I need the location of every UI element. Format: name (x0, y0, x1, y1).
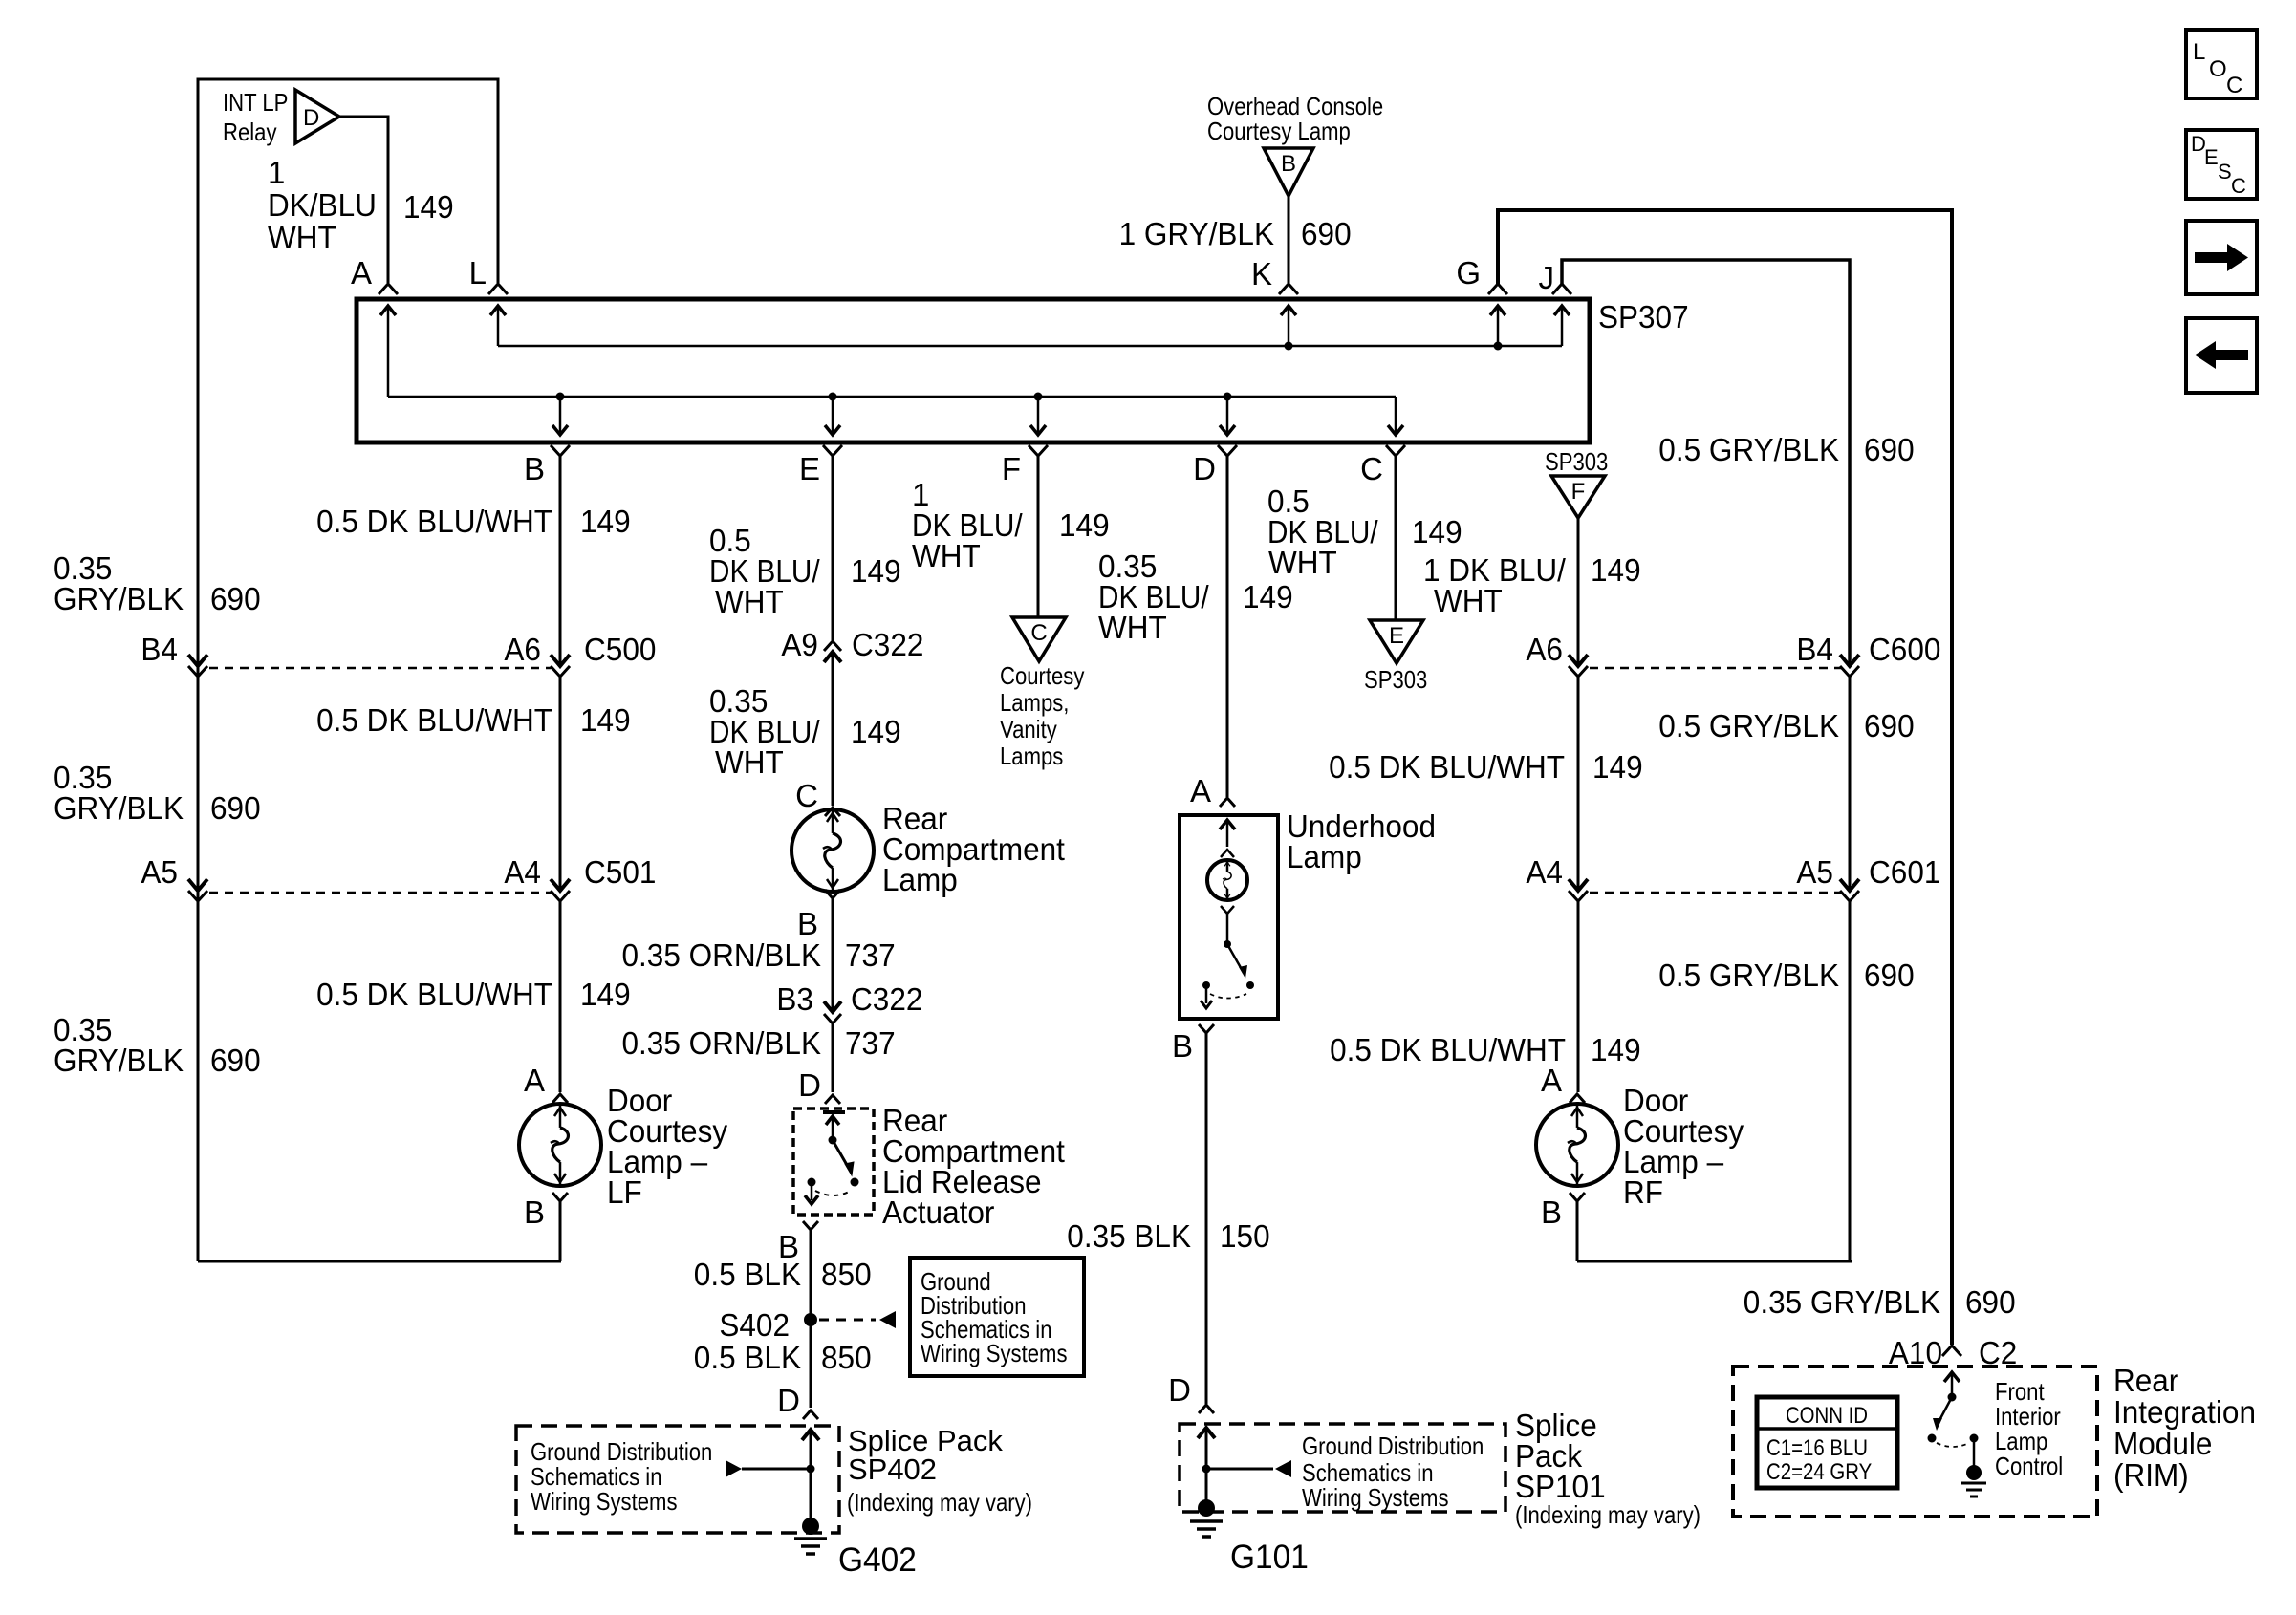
node A4 chevron (C601) (1569, 891, 1588, 901)
label Rear Compartment Lid Release Actuator (882, 1103, 1065, 1230)
connector label A10 C2 (1889, 1335, 2017, 1370)
svg-text:C: C (2226, 73, 2242, 98)
connector label A4 (C601) (1526, 854, 1563, 890)
svg-text:Courtesy Lamp: Courtesy Lamp (1207, 117, 1351, 145)
pin label D (actuator) (798, 1067, 821, 1103)
label Rear Integration Module (RIM) (2113, 1363, 2256, 1493)
SP101 internal branch with arrow (1202, 1460, 1292, 1477)
label 0.35 BLK 150 (1067, 1218, 1269, 1254)
svg-text:B: B (524, 1195, 545, 1230)
svg-text:K: K (1251, 256, 1272, 291)
svg-text:WHT: WHT (1268, 545, 1337, 580)
node A6 chevron below C500 (551, 666, 570, 677)
svg-text:A5: A5 (141, 854, 178, 890)
svg-text:C2=24 GRY: C2=24 GRY (1766, 1459, 1872, 1485)
svg-text:A9: A9 (781, 627, 818, 662)
connector C500 arrow into (551, 655, 570, 666)
wire - right GRY/BLK seg2 (1849, 677, 1852, 891)
svg-text:1: 1 (268, 155, 285, 190)
svg-text:DK/BLU: DK/BLU (268, 187, 377, 223)
svg-text:SP101: SP101 (1515, 1469, 1606, 1504)
ground G402 (794, 1518, 827, 1554)
pin label C (1360, 451, 1383, 486)
svg-text:Wiring Systems: Wiring Systems (531, 1487, 678, 1516)
svg-text:149: 149 (1592, 749, 1643, 785)
node C chevron into rear lamp (825, 807, 840, 816)
svg-text:Courtesy: Courtesy (1000, 661, 1084, 690)
svg-text:C601: C601 (1869, 854, 1940, 890)
svg-text:D: D (798, 1067, 821, 1103)
svg-text:A4: A4 (1526, 854, 1563, 890)
svg-text:(Indexing may vary): (Indexing may vary) (1515, 1500, 1700, 1529)
svg-text:(RIM): (RIM) (2113, 1457, 2189, 1493)
label 1 DK BLU/ WHT 149 (F wire) (912, 477, 1110, 573)
node A chevron into underhood lamp (1220, 798, 1235, 807)
pin label A (underhood lamp) (1190, 773, 1211, 808)
svg-text:A6: A6 (504, 632, 541, 667)
label Underhood Lamp (1287, 808, 1436, 874)
wire - right GRY/BLK seg3 (1849, 901, 1852, 1262)
SP402 internal wire with arrow (802, 1430, 819, 1526)
svg-text:C322: C322 (851, 981, 922, 1017)
wire - E circuit seg2 (0.35 DK BLU/WHT) (832, 652, 834, 806)
svg-text:C1=16 BLU: C1=16 BLU (1766, 1435, 1868, 1461)
connector label A9 C322 (781, 627, 923, 662)
node A5 chevron (C601) (1840, 891, 1859, 901)
wire - RF feed seg1 (1 DK BLU/WHT) (1577, 518, 1580, 666)
svg-text:SP303: SP303 (1364, 665, 1427, 694)
label SP303 above F triangle (1545, 447, 1608, 476)
svg-text:G: G (1456, 255, 1481, 291)
svg-text:D: D (303, 105, 319, 131)
svg-text:149: 149 (1591, 552, 1641, 588)
ground distribution reference box (solid) (910, 1258, 1084, 1376)
wire - C circuit to E triangle (1395, 456, 1397, 620)
label 1 DK/BLU WHT 149 (relay wire circuit) (268, 155, 454, 255)
node E chevron out of SP307 (823, 445, 842, 456)
svg-text:WHT: WHT (715, 584, 784, 619)
svg-text:A5: A5 (1796, 854, 1833, 890)
pin label A (RF lamp) (1541, 1063, 1562, 1098)
CONN ID table (1757, 1397, 1897, 1488)
label 0.5 DK BLU/WHT 149 (B seg1) (316, 504, 631, 539)
label 0.35 ORN/BLK 737 (seg1) (622, 937, 896, 973)
node B chevron below LF lamp (552, 1193, 568, 1201)
svg-text:C322: C322 (852, 627, 923, 662)
legend box DESC (2186, 130, 2257, 199)
connector C501 dashed line (209, 892, 552, 894)
svg-text:E: E (1389, 623, 1404, 649)
svg-text:0.5 GRY/BLK: 0.5 GRY/BLK (1658, 958, 1839, 993)
svg-text:Wiring Systems: Wiring Systems (921, 1339, 1068, 1367)
svg-text:149: 149 (851, 553, 901, 589)
label 0.5 DK BLU/ WHT 149 (E seg1) (709, 523, 901, 619)
off-page triangle F (SP303) (1551, 476, 1605, 518)
pin label D (SP101) (1168, 1372, 1191, 1408)
svg-text:GRY/BLK: GRY/BLK (54, 581, 184, 616)
connector label A5 C601 (1796, 854, 1940, 890)
svg-text:C501: C501 (584, 854, 656, 890)
svg-text:149: 149 (851, 714, 901, 749)
svg-text:Integration: Integration (2113, 1394, 2256, 1430)
svg-text:Rear: Rear (2113, 1363, 2178, 1398)
connector C601 arrow right wire (1840, 879, 1859, 891)
svg-text:C: C (2231, 174, 2246, 198)
svg-text:737: 737 (845, 1025, 896, 1061)
label 0.35 GRY/BLK 690 (RIM feed) (1744, 1284, 2016, 1320)
pin label A (LF lamp) (524, 1063, 545, 1098)
svg-text:A: A (1190, 773, 1211, 808)
connector label A5 (141, 854, 178, 890)
wire - relay D to pin A (339, 117, 388, 283)
INT LP Relay label (223, 88, 288, 146)
connector C600 arrow left wire (1569, 655, 1588, 666)
svg-text:B: B (1541, 1195, 1562, 1230)
svg-text:0.35 ORN/BLK: 0.35 ORN/BLK (622, 937, 822, 973)
pin label B (524, 451, 545, 486)
SP101 internal wire with arrow (1198, 1428, 1215, 1508)
svg-text:B4: B4 (1796, 632, 1833, 667)
svg-text:D: D (1168, 1372, 1191, 1408)
svg-text:850: 850 (821, 1257, 872, 1292)
RIM front interior lamp control switch (1928, 1372, 1987, 1497)
svg-text:0.35 BLK: 0.35 BLK (1067, 1218, 1191, 1254)
wire - G feed path to far right vertical (0.35 GRY/BLK to RIM) (1498, 210, 1952, 1345)
node A chevron into RF lamp (1570, 1094, 1585, 1103)
svg-text:0.5 DK BLU/WHT: 0.5 DK BLU/WHT (1330, 1032, 1566, 1067)
label Door Courtesy Lamp - LF (607, 1083, 728, 1210)
label Splice Pack SP101 (1515, 1408, 1700, 1529)
wire - 0.35 BLK 150 to SP101 (1205, 1033, 1208, 1404)
svg-text:0.5 BLK: 0.5 BLK (694, 1340, 801, 1375)
label 0.35 GRY/BLK 690 (left seg2) (54, 760, 261, 826)
node A4 chevron below C501 (551, 891, 570, 901)
node B chevron out of SP307 (551, 445, 570, 456)
label SP303 below E triangle (1364, 665, 1427, 694)
pin label E (799, 451, 820, 486)
svg-text:149: 149 (1591, 1032, 1641, 1067)
pin label L (469, 255, 487, 291)
label 0.5 DK BLU/WHT 149 (RF seg3) (1330, 1032, 1641, 1067)
svg-text:WHT: WHT (715, 744, 784, 780)
node L chevron into SP307 (488, 284, 508, 294)
node K chevron into SP307 (1279, 284, 1298, 294)
label 0.5 GRY/BLK 690 (right seg1) (1658, 432, 1914, 467)
underhood lamp internal switch (1201, 906, 1254, 1008)
connector label B4 C600 (1796, 632, 1940, 667)
pin label B (RF lamp) (1541, 1195, 1562, 1230)
pin label J (1539, 260, 1555, 295)
svg-text:F: F (1002, 451, 1021, 486)
wire - LF lamp B to ground bus (559, 1201, 562, 1261)
wire - D circuit to underhood lamp (1226, 456, 1229, 797)
svg-text:1 GRY/BLK: 1 GRY/BLK (1119, 216, 1274, 251)
svg-text:INT LP: INT LP (223, 88, 288, 117)
wire - 0.5 BLK 850 to SP402 (810, 1320, 812, 1408)
node J chevron into SP307 (1552, 284, 1571, 294)
wire - 0.5 BLK 850 to S402 (810, 1230, 812, 1318)
svg-text:0.35 GRY/BLK: 0.35 GRY/BLK (1744, 1284, 1940, 1320)
Overhead Console Courtesy Lamp label (1207, 92, 1383, 145)
svg-text:Lamps,: Lamps, (1000, 688, 1069, 717)
connector C322 A9 arrow up on lower wire (824, 652, 841, 662)
pin label D (SP402) (777, 1383, 800, 1418)
svg-text:Ground Distribution: Ground Distribution (1302, 1432, 1484, 1460)
svg-text:150: 150 (1220, 1218, 1270, 1254)
connector C600 dashed line (1590, 667, 1841, 670)
pin label B (rear lamp) (797, 906, 818, 941)
wire - B circuit 149 segment 3 (559, 901, 562, 1092)
connector label A4 C501 (504, 854, 656, 890)
svg-text:C: C (1360, 451, 1383, 486)
svg-text:B: B (1281, 151, 1296, 177)
splice S402 (719, 1307, 896, 1343)
svg-text:WHT: WHT (912, 538, 981, 573)
svg-text:850: 850 (821, 1340, 872, 1375)
connector C501 arrow into (551, 879, 570, 891)
wire - B circuit 149 segment 2 (559, 677, 562, 891)
svg-text:Lamp: Lamp (1287, 839, 1362, 874)
svg-text:Module: Module (2113, 1426, 2212, 1461)
label Rear Compartment Lamp (882, 801, 1065, 897)
wire - bottom return to left branch (198, 1260, 561, 1263)
splice pack SP307 box (357, 299, 1590, 442)
svg-text:J: J (1539, 260, 1555, 295)
svg-text:D: D (1193, 451, 1216, 486)
connector C500 arrow left wire (188, 655, 207, 666)
svg-text:GRY/BLK: GRY/BLK (54, 1043, 184, 1078)
node D chevron out of SP307 (1218, 445, 1237, 456)
node A5 chevron (188, 891, 207, 901)
svg-text:LF: LF (607, 1174, 642, 1210)
svg-text:C500: C500 (584, 632, 656, 667)
underhood lamp internal wire arrow (1220, 820, 1235, 857)
connector C601 arrow left wire (1569, 879, 1588, 891)
svg-text:WHT: WHT (1098, 610, 1167, 645)
label 0.5 DK BLU/WHT 149 (B seg3) (316, 977, 631, 1012)
node B chevron below rear lamp (825, 890, 840, 898)
svg-text:690: 690 (1864, 432, 1915, 467)
underhood lamp bulb (1207, 860, 1247, 900)
connector label A6 (C600) (1526, 632, 1563, 667)
wire - B circuit 149 segment 1 (559, 456, 562, 666)
pin label G (1456, 255, 1481, 291)
svg-text:690: 690 (1301, 216, 1352, 251)
svg-text:A6: A6 (1526, 632, 1563, 667)
svg-text:0.5 GRY/BLK: 0.5 GRY/BLK (1658, 432, 1839, 467)
svg-text:690: 690 (1965, 1284, 2016, 1320)
pin label K (1251, 256, 1272, 291)
svg-text:C: C (1030, 620, 1047, 646)
node B chevron below underhood lamp (1199, 1024, 1214, 1033)
svg-text:690: 690 (210, 1043, 261, 1078)
SP307 inner bus from L to J (490, 306, 1570, 351)
pin label F (1002, 451, 1021, 486)
label 0.35 DK BLU/ WHT 149 (D wire) (1098, 549, 1293, 645)
svg-text:Actuator: Actuator (882, 1195, 994, 1230)
svg-text:A: A (1541, 1063, 1562, 1098)
pin label B (actuator) (778, 1229, 799, 1264)
label G101 (1230, 1539, 1309, 1576)
splice pack SP402 box (dashed) (516, 1426, 839, 1533)
pin label D (1193, 451, 1216, 486)
svg-text:0.5 DK BLU/WHT: 0.5 DK BLU/WHT (316, 977, 552, 1012)
label 0.35 DK BLU/ WHT 149 (E seg2) (709, 683, 901, 780)
rear integration module RIM box (dashed) (1733, 1367, 2097, 1517)
legend box left arrow (2186, 318, 2257, 393)
svg-text:149: 149 (580, 702, 631, 738)
node B chevron below RF lamp (1570, 1193, 1585, 1201)
svg-text:A4: A4 (504, 854, 541, 890)
label 1 GRY/BLK 690 (1119, 216, 1352, 251)
label Courtesy Lamps Vanity Lamps (1000, 661, 1084, 770)
svg-text:690: 690 (1864, 958, 1915, 993)
svg-text:E: E (2204, 145, 2219, 169)
node A chevron into LF lamp (552, 1094, 568, 1103)
svg-text:A: A (351, 255, 372, 291)
svg-text:E: E (799, 451, 820, 486)
svg-text:0.5 DK BLU/WHT: 0.5 DK BLU/WHT (1329, 749, 1565, 785)
svg-text:SP303: SP303 (1545, 447, 1608, 476)
connector label A6 C500 (504, 632, 656, 667)
label SP307 (1598, 299, 1689, 334)
rear compartment lid release actuator box (dashed) (793, 1109, 874, 1215)
svg-text:CONN ID: CONN ID (1786, 1403, 1868, 1429)
label 0.35 GRY/BLK 690 (left seg1) (54, 550, 261, 616)
label 0.5 DK BLU/WHT 149 (B seg2) (316, 702, 631, 738)
svg-text:B: B (797, 906, 818, 941)
svg-text:737: 737 (845, 937, 896, 973)
svg-text:O: O (2209, 56, 2227, 82)
legend box right arrow (2186, 221, 2257, 294)
svg-text:L: L (469, 255, 487, 291)
node D chevron into SP402 (803, 1410, 818, 1419)
svg-text:(Indexing may vary): (Indexing may vary) (847, 1488, 1032, 1517)
svg-text:S: S (2218, 160, 2232, 183)
svg-text:149: 149 (1412, 514, 1462, 549)
SP307 inner bus from A to B E F D C (380, 306, 1403, 435)
node G chevron into SP307 (1488, 284, 1507, 294)
svg-text:0.5 DK BLU/WHT: 0.5 DK BLU/WHT (316, 504, 552, 539)
svg-text:0.5 BLK: 0.5 BLK (694, 1257, 801, 1292)
SP402 internal ground distribution text (531, 1437, 712, 1516)
connector label B3 C322 (776, 981, 922, 1017)
svg-text:149: 149 (403, 189, 454, 225)
label 0.35 GRY/BLK 690 (left seg3) (54, 1012, 261, 1078)
svg-text:SP307: SP307 (1598, 299, 1689, 334)
node B4 chevron (188, 666, 207, 677)
connector C501 arrow left wire (188, 879, 207, 891)
svg-text:690: 690 (210, 581, 261, 616)
svg-text:D: D (777, 1383, 800, 1418)
svg-text:Lamps: Lamps (1000, 742, 1063, 770)
relay output triangle D (295, 90, 339, 143)
label 0.5 BLK 850 (below S402) (694, 1340, 872, 1375)
svg-text:0.35 ORN/BLK: 0.35 ORN/BLK (622, 1025, 822, 1061)
connector C322 A9 chevron (824, 641, 841, 651)
svg-text:WHT: WHT (268, 220, 336, 255)
svg-text:B: B (1172, 1028, 1193, 1064)
off-page triangle C (courtesy lamps) (1012, 617, 1066, 661)
svg-text:Vanity: Vanity (1000, 715, 1057, 743)
svg-text:L: L (2193, 39, 2205, 65)
svg-text:149: 149 (1059, 507, 1110, 543)
node C2 chevron into RIM (1942, 1346, 1961, 1356)
svg-text:Lamp: Lamp (882, 862, 958, 897)
pin label C (rear compartment lamp) (795, 778, 818, 813)
svg-text:SP402: SP402 (848, 1453, 937, 1486)
legend box LOC (2186, 30, 2257, 98)
svg-text:A: A (524, 1063, 545, 1098)
node A6 chevron (C600) (1569, 666, 1588, 677)
svg-text:0.5 GRY/BLK: 0.5 GRY/BLK (1658, 708, 1839, 743)
label 0.5 GRY/BLK 690 (right seg2) (1658, 708, 1914, 743)
wire - E circuit seg1 (832, 456, 834, 640)
wire - RF feed seg2 (1577, 677, 1580, 891)
label G402 (838, 1541, 917, 1579)
wire - RF lamp B return (1576, 1201, 1579, 1261)
wire - RF bottom return to GRY/BLK wire (1577, 1260, 1852, 1263)
splice pack SP101 box (dashed) (1180, 1424, 1505, 1512)
svg-text:G101: G101 (1230, 1539, 1309, 1576)
svg-text:690: 690 (1864, 708, 1915, 743)
node B chevron below actuator (803, 1221, 818, 1230)
svg-text:B4: B4 (141, 632, 178, 667)
connector C601 dashed line (1590, 892, 1841, 894)
wire - RF feed seg3 (1577, 901, 1580, 1092)
wire - ORN/BLK 737 seg1 (832, 898, 834, 1013)
label 0.5 DK BLU/WHT 149 (RF seg2) (1329, 749, 1643, 785)
label 0.5 GRY/BLK 690 (right seg3) (1658, 958, 1914, 993)
connector C500 dashed line (209, 667, 552, 670)
actuator internal contact and switch (805, 1112, 859, 1204)
svg-text:RF: RF (1623, 1174, 1663, 1210)
wire - overhead console to pin K (1288, 196, 1290, 283)
svg-text:Wiring Systems: Wiring Systems (1302, 1483, 1449, 1512)
node C chevron out of SP307 (1386, 445, 1405, 456)
label Front Interior Lamp Control (1995, 1377, 2063, 1480)
label Splice Pack SP402 (847, 1424, 1032, 1517)
node B4 chevron (C600) (1840, 666, 1859, 677)
svg-text:C600: C600 (1869, 632, 1940, 667)
door courtesy lamp RF bulb (1536, 1104, 1618, 1186)
svg-text:B3: B3 (776, 981, 813, 1017)
svg-text:WHT: WHT (1434, 583, 1503, 618)
svg-text:690: 690 (210, 790, 261, 826)
label 0.5 BLK 850 (above S402) (694, 1257, 872, 1292)
ground G101 (1190, 1499, 1223, 1537)
wire - J feed path to right vertical (0.5 GRY/BLK) (1562, 260, 1850, 666)
svg-text:F: F (1571, 479, 1586, 505)
svg-text:0.5 DK BLU/WHT: 0.5 DK BLU/WHT (316, 702, 552, 738)
pin label A (351, 255, 372, 291)
SP402 internal branch with arrow (726, 1460, 815, 1477)
svg-text:C: C (795, 778, 818, 813)
rear compartment lamp bulb (791, 809, 874, 892)
wire - ORN/BLK 737 seg2 (832, 1023, 834, 1092)
connector C322 B3 chevron (824, 1014, 841, 1023)
SP101 internal ground distribution text (1302, 1432, 1484, 1512)
svg-text:149: 149 (580, 504, 631, 539)
door courtesy lamp LF bulb (519, 1104, 601, 1186)
wire - left branch rectangle from INT LP Relay feed (198, 79, 498, 1261)
node F chevron out of SP307 (1029, 445, 1048, 456)
underhood lamp box (1180, 815, 1278, 1019)
pin label B (LF lamp) (524, 1195, 545, 1230)
svg-text:B: B (524, 451, 545, 486)
connector C322 B3 arrow down (824, 1001, 841, 1012)
node D chevron into actuator (825, 1095, 840, 1104)
